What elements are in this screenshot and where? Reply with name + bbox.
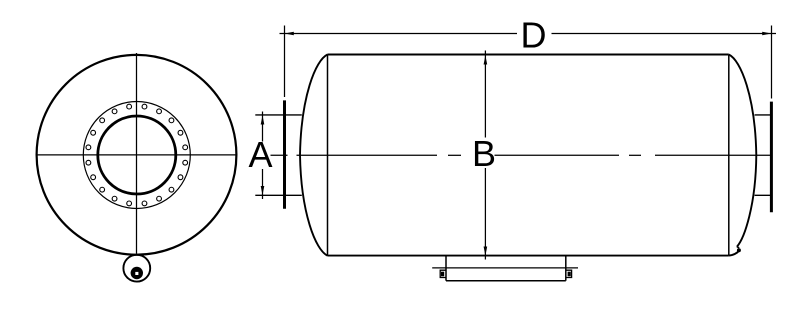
horizontal centerline of front view [36,154,237,156]
main horizontal centerline (dash-dot) [271,154,772,156]
dimension D right arrow [762,32,771,36]
manway flange bore circle [98,116,176,194]
drain stub hook [737,247,739,248]
svg-text:A: A [248,134,272,175]
drain boss circle [123,255,150,282]
skid left end bolt [441,272,444,277]
left nozzle flange [283,100,286,208]
support skid right side line [565,257,567,281]
dimension B line [484,51,486,260]
manway flange outer circle [83,102,190,209]
dimension A line [262,112,264,200]
support skid left side line [445,257,447,281]
tank side view: bottom shell line [328,255,729,257]
dimension B bottom arrow [484,247,488,256]
dimension A top arrow [261,115,265,124]
skid right end clip [566,270,572,277]
skid left end clip [440,270,446,277]
vertical centerline of front view [136,53,138,254]
drain plug square hole [135,272,138,275]
right nozzle neck top line [755,114,772,116]
bolt holes (20 on bolt circle) [86,104,188,206]
support skid bottom line [446,280,566,282]
dimension A bottom arrow [261,186,265,195]
dimension D extension line left [284,26,286,98]
left head tangent line [327,55,329,256]
skid right end bolt [568,272,571,277]
right dished head curve [729,55,757,247]
dimension B top arrow [484,55,488,64]
right head tangent line [728,55,730,256]
left nozzle neck bottom line [255,194,301,196]
right nozzle neck bottom line [755,194,772,196]
left nozzle neck top line [255,114,301,116]
support skid mid rail line [432,267,578,269]
bottom drain stub curl [729,250,740,255]
tank side view: top shell line [328,54,729,56]
dimension D extension line right [771,26,773,99]
right nozzle flange [770,102,773,213]
dimension D line [280,33,777,35]
dimension D left arrow [285,32,294,36]
left dished head curve [300,55,328,256]
tank front view: shell outer circle [37,55,237,255]
drain plug dot [131,267,143,279]
svg-text:B: B [472,133,496,174]
svg-text:D: D [521,15,547,56]
drain stub blob [737,248,741,252]
